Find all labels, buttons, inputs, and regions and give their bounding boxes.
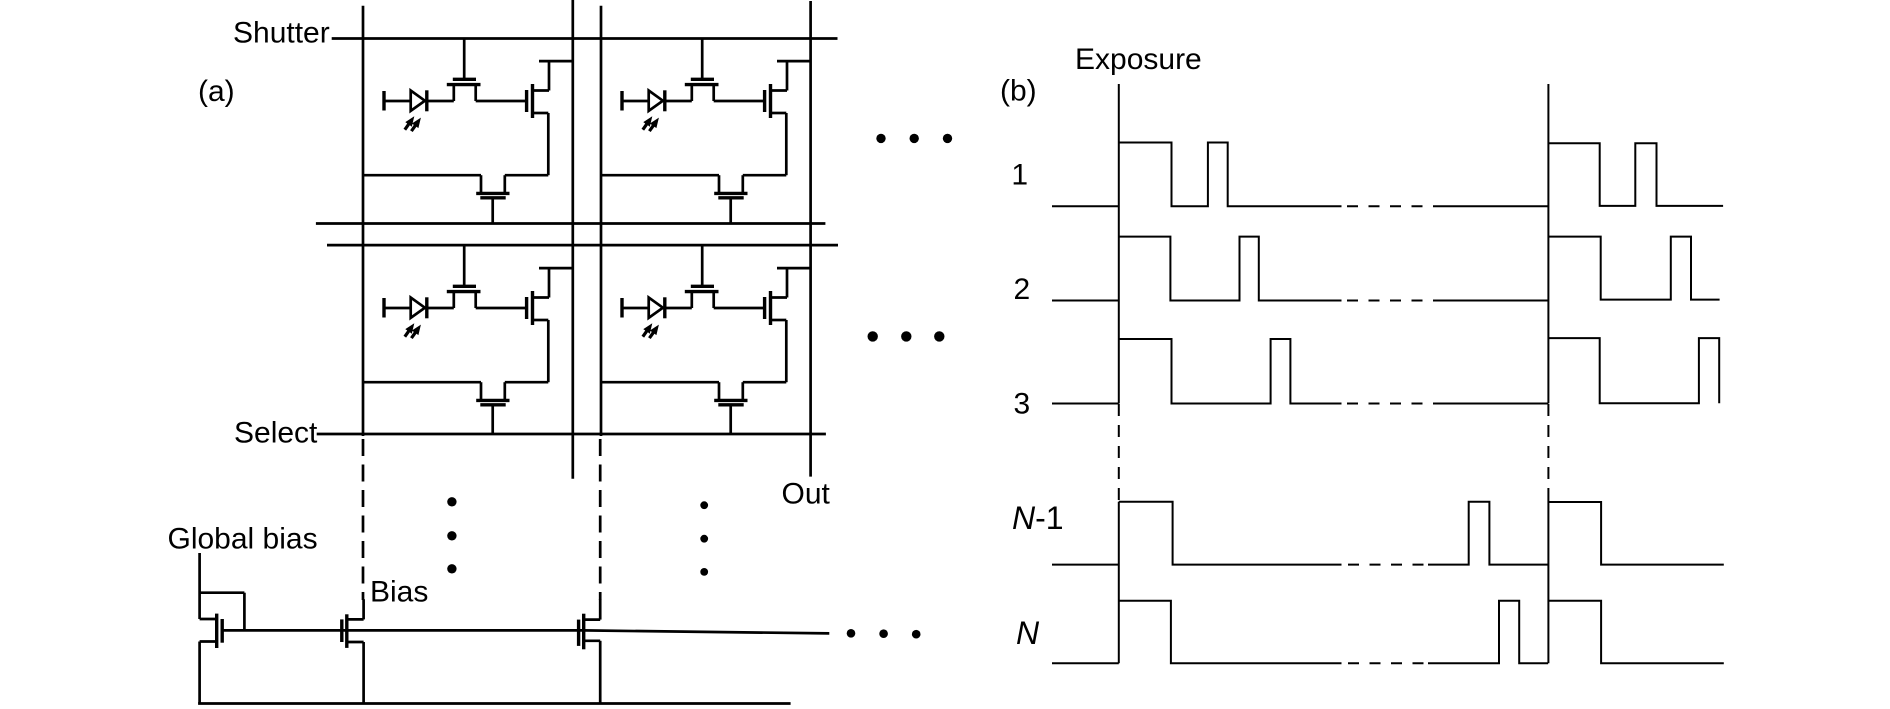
svg-text:N-1: N-1 [1012,500,1064,536]
svg-text:1: 1 [1011,159,1028,192]
svg-text:(b): (b) [1000,75,1037,108]
svg-text:2: 2 [1013,273,1030,306]
svg-text:Out: Out [782,478,831,511]
svg-text:(a): (a) [198,75,235,108]
svg-text:Shutter: Shutter [233,16,330,49]
svg-text:Global bias: Global bias [168,523,318,556]
svg-text:Select: Select [234,416,318,449]
svg-text:Bias: Bias [370,576,428,609]
svg-text:3: 3 [1013,388,1030,421]
svg-text:N: N [1016,615,1040,651]
svg-text:Exposure: Exposure [1075,43,1202,76]
